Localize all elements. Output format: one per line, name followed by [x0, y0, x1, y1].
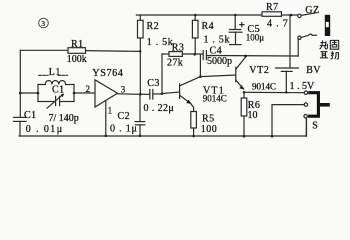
svg-text:R2: R2	[147, 21, 159, 32]
node tank left	[37, 92, 40, 95]
svg-text:0 . 01μ: 0 . 01μ	[26, 124, 64, 135]
node R6 ground	[243, 135, 246, 138]
wire VT2 emitter to switch contact	[244, 91, 304, 93]
resistor R5	[191, 103, 218, 136]
node pin1 ground	[105, 135, 108, 138]
svg-text:9014C: 9014C	[252, 81, 276, 91]
node junction dot left column to tank	[19, 92, 22, 95]
resistor R6	[241, 92, 260, 136]
resistor R2	[138, 15, 174, 94]
node R1 joins R2 column	[139, 50, 141, 52]
capacitor C3	[140, 78, 174, 114]
node tank right	[73, 92, 76, 95]
wire tank to pin 2	[74, 92, 95, 94]
top supply rail	[136, 14, 297, 16]
capacitor C1 input	[14, 110, 64, 136]
capacitor C5 electrolytic	[229, 14, 264, 45]
wire C4 line corner up to jack lower contact	[297, 40, 299, 57]
svg-text:3: 3	[121, 84, 126, 94]
inductor L1 with ferrite rod dashes	[38, 67, 74, 85]
switch S contact 1	[304, 91, 307, 94]
svg-text:0 . 22μ: 0 . 22μ	[144, 103, 175, 114]
svg-text:C3: C3	[147, 78, 159, 89]
svg-text:4 . 7: 4 . 7	[267, 18, 289, 29]
svg-text:0 . 1μ: 0 . 1μ	[110, 124, 138, 135]
svg-text:YS764: YS764	[92, 68, 123, 79]
node battery feed on rail	[290, 14, 293, 17]
svg-text:BV: BV	[306, 65, 321, 76]
svg-text:5000p: 5000p	[207, 56, 232, 67]
svg-text:27k: 27k	[167, 57, 183, 68]
svg-text:C4: C4	[210, 45, 222, 56]
svg-text:C1: C1	[52, 85, 64, 96]
wire contact3 stub to ground rail	[305, 118, 307, 136]
node output pin3 R2 C2	[139, 93, 142, 96]
battery BV	[276, 15, 322, 92]
svg-text:1 . 5k: 1 . 5k	[147, 37, 174, 48]
wire VT1 collector up to R4 C4 line	[199, 55, 201, 76]
svg-text:R5: R5	[202, 113, 214, 124]
node VT2 collector on C4 line	[244, 55, 247, 58]
svg-text:100: 100	[201, 124, 218, 135]
transistor VT2 9014C	[200, 57, 276, 91]
node battery minus on emitter wire	[285, 91, 287, 93]
wire pin 3 output	[118, 93, 140, 96]
svg-text:3: 3	[41, 19, 45, 28]
tank circuit left edge wire	[37, 85, 39, 102]
resistor R7	[262, 2, 289, 30]
resistor R4	[192, 14, 230, 55]
node VT2 emitter	[243, 91, 246, 94]
capacitor C4	[203, 45, 298, 66]
svg-text:GZ: GZ	[305, 5, 320, 16]
svg-text:100k: 100k	[67, 54, 87, 65]
svg-text:R1: R1	[71, 39, 83, 50]
earphone plug	[325, 15, 330, 36]
label er ji (earphone)	[320, 51, 339, 59]
wire pin 1 to ground rail	[105, 101, 107, 136]
switch S contact 3	[304, 115, 307, 118]
transistor VT1 9014C	[162, 77, 227, 104]
node contact2 ground	[271, 135, 274, 138]
op-amp IC U1 YS764	[92, 68, 123, 107]
switch S contact 2	[304, 103, 307, 106]
svg-text:9014C: 9014C	[203, 93, 227, 103]
wire tank tap	[20, 92, 38, 94]
svg-text:1 . 5V: 1 . 5V	[290, 81, 316, 92]
capacitor C2	[110, 94, 145, 136]
svg-text:2: 2	[86, 84, 91, 94]
jack GZ lower contact	[298, 34, 317, 40]
svg-text:R7: R7	[266, 2, 278, 13]
node VT1 collector VT2 base	[199, 75, 202, 78]
resistor R3	[162, 43, 203, 94]
node R3 R4 C4	[194, 53, 197, 56]
wire contact2 to ground	[272, 105, 304, 137]
node C2 ground	[139, 135, 142, 138]
svg-text:1 . 5k: 1 . 5k	[204, 34, 231, 45]
resistor R1	[20, 39, 140, 65]
node R5 ground	[192, 135, 195, 138]
svg-text:S: S	[312, 121, 318, 132]
label dong quan (dynamic coil)	[320, 40, 339, 49]
svg-text:C2: C2	[118, 111, 130, 122]
figure number circled 3	[39, 18, 49, 28]
svg-text:L1: L1	[49, 67, 61, 78]
tank circuit right edge wire	[73, 85, 75, 102]
svg-text:100μ: 100μ	[246, 32, 264, 42]
jack GZ top contact	[298, 5, 320, 18]
variable capacitor C1 of tank	[38, 85, 79, 124]
ground bottom rail	[19, 118, 307, 136]
node C3 R3 VT1 base	[161, 92, 164, 95]
svg-text:10: 10	[248, 110, 258, 121]
svg-text:R4: R4	[202, 21, 214, 32]
svg-text:VT2: VT2	[249, 65, 269, 76]
svg-text:R3: R3	[172, 43, 184, 54]
wire left column from R1 corner down to C1	[19, 50, 21, 117]
svg-text:1: 1	[108, 106, 113, 116]
svg-text:C1: C1	[24, 110, 36, 121]
switch S plug bridge	[308, 93, 330, 132]
svg-text:7/ 140p: 7/ 140p	[49, 113, 79, 124]
